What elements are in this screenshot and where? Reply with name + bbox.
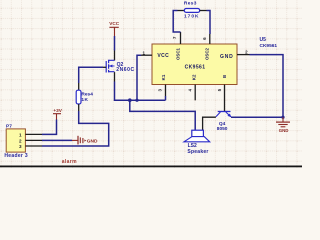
power port +3V <box>53 108 63 120</box>
svg-text:1: 1 <box>19 132 22 137</box>
pin: Q2 drain <box>114 51 116 61</box>
pin: P7-2 <box>25 139 42 141</box>
power port GND (bar style) <box>72 136 98 145</box>
pin: Q2 gate lead <box>103 66 106 68</box>
sheet bottom border <box>0 166 302 168</box>
svg-text:Res3: Res3 <box>184 1 197 7</box>
pin 6 (U5) <box>209 34 211 44</box>
svg-text:VCC: VCC <box>109 21 120 26</box>
resistor R4 body <box>76 90 81 104</box>
svg-text:+3V: +3V <box>53 108 62 113</box>
svg-text:B: B <box>222 75 227 78</box>
pin: Res4 top lead <box>78 83 80 90</box>
svg-text:GND: GND <box>220 54 234 60</box>
svg-text:CK9561: CK9561 <box>185 64 206 70</box>
pin 4 (U5) <box>194 85 196 101</box>
svg-text:alarm: alarm <box>62 159 77 165</box>
wire branch to speaker <box>130 100 195 130</box>
wire Res3 to pin6 <box>207 11 211 35</box>
wire pin3 down <box>165 96 167 100</box>
pin 1 (U5) <box>141 54 152 56</box>
junction dot C <box>281 116 284 119</box>
svg-text:K2: K2 <box>191 74 196 80</box>
svg-text:8050: 8050 <box>217 126 228 132</box>
wire P7-2 to GND port <box>42 139 72 141</box>
svg-text:K1: K1 <box>161 74 166 80</box>
pin 2 (U5) <box>237 54 250 56</box>
svg-text:VCC: VCC <box>157 53 169 59</box>
pin: Q2 source <box>114 72 116 81</box>
wire VCC to Q2 drain <box>114 36 116 51</box>
wire to U5 pin1 <box>137 55 141 100</box>
svg-text:2N60C: 2N60C <box>116 67 134 73</box>
sheet background <box>0 0 302 168</box>
wire pin2 to ground rail <box>250 55 284 118</box>
transistor Q2 (NMOS) <box>106 60 114 73</box>
power port VCC <box>109 21 120 36</box>
svg-text:CK9561: CK9561 <box>260 43 278 49</box>
resistor R3 body <box>184 9 199 13</box>
pin 5 (U5) <box>224 85 226 102</box>
pin 7 (U5) <box>180 32 182 44</box>
junction dot A <box>128 98 132 102</box>
wire Res4 to pin3 net <box>42 111 109 146</box>
pin 3 (U5) <box>165 85 167 97</box>
wire Q4 collector to speaker <box>203 117 216 130</box>
svg-text:3: 3 <box>19 144 22 149</box>
wire Q2 source down <box>115 82 166 101</box>
svg-text:2: 2 <box>19 138 22 143</box>
pin: Res3 left lead <box>178 10 185 12</box>
pin: Res3 right lead <box>200 10 207 12</box>
header P7 body <box>6 129 25 152</box>
pin: Res4 bottom lead <box>78 104 80 111</box>
svg-text:GND: GND <box>279 128 289 133</box>
speaker LS2 body <box>192 130 204 136</box>
wire gate to Res4 <box>79 67 103 83</box>
svg-text:170K: 170K <box>184 13 199 19</box>
svg-text:OSC2: OSC2 <box>205 47 210 60</box>
power port GND (earth) <box>276 117 290 133</box>
speaker LS2 cone <box>184 137 210 142</box>
wire pin7 to Res3 (jog) <box>173 11 180 33</box>
svg-text:U5: U5 <box>260 37 267 43</box>
svg-text:Speaker: Speaker <box>187 149 208 155</box>
Q2 arrow <box>109 65 112 68</box>
IC U5 body <box>152 44 237 85</box>
svg-text:OSC1: OSC1 <box>176 47 181 60</box>
Q4 emitter arrow <box>227 114 231 118</box>
pin: P7-1 <box>25 133 42 135</box>
svg-text:GND: GND <box>87 138 98 144</box>
transistor Q4 (NPN 8050) <box>216 112 231 117</box>
wire pin5 to Q4 base <box>224 101 226 111</box>
wire ground rail to Q4 emitter <box>231 116 283 118</box>
junction dot B <box>135 99 138 102</box>
pin: P7-3 <box>25 145 42 147</box>
wire P7-1 to +3V <box>42 120 57 135</box>
svg-text:Res4: Res4 <box>81 92 93 98</box>
svg-text:1K: 1K <box>81 97 88 103</box>
svg-text:Header 3: Header 3 <box>4 153 28 159</box>
